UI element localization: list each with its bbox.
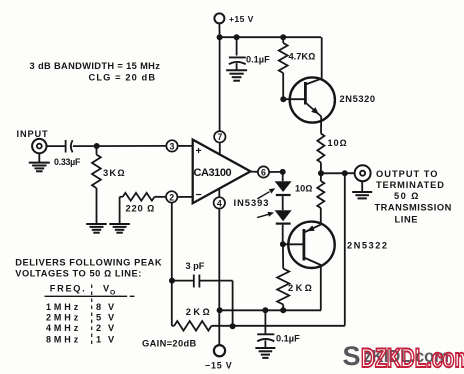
svg-text:2N5320: 2N5320 [340,94,376,104]
capacitor C2 0.33uF [47,140,81,167]
pin 4 [214,197,225,208]
capacitor C4 0.1uF bypass -15V [257,310,300,347]
svg-text:2N5322: 2N5322 [347,241,389,251]
ground below C4 [255,348,275,358]
label 1N5393 [234,188,276,217]
svg-text:INPUT: INPUT [17,129,49,139]
wire Q2 collector [320,265,322,310]
table header [45,284,135,346]
node +15V rail junctions [217,34,287,40]
svg-text:CA3100: CA3100 [194,167,232,179]
svg-text:1 V: 1 V [96,334,116,344]
resistor R7 2K [277,244,314,310]
svg-text:6: 6 [261,167,266,177]
-15V supply terminal [205,345,232,370]
diode D1 1N5393 [275,172,292,210]
svg-text:4MHz: 4MHz [46,323,81,333]
svg-text:FREQ.: FREQ. [50,284,87,294]
output terminal [355,165,371,181]
wire -15V rail [220,309,321,311]
svg-text:3 dB BANDWIDTH = 15 MHz: 3 dB BANDWIDTH = 15 MHz [30,61,161,71]
svg-text:2: 2 [169,192,174,202]
resistor R1 3K [92,146,126,224]
node R7 to -15V rail [280,307,286,313]
pin 7 [214,131,225,142]
svg-text:V: V [103,284,110,294]
svg-text:TRANSMISSION: TRANSMISSION [375,202,452,212]
node Q2 base [280,241,286,247]
wire pin2 column [171,203,173,326]
node output feedback tap [342,170,348,176]
wire pin7 column [219,37,221,131]
node -15V rail left [217,307,223,313]
node C3 to feedback rail [230,323,236,329]
resistor R6 10 ohm [295,173,324,224]
node output junction [318,170,324,176]
ground below R2 [109,224,130,233]
wire pin6 to node [251,171,283,173]
wire pin4 to -15V [218,209,220,345]
svg-text:IN5393: IN5393 [234,198,270,208]
ground below input [29,153,50,171]
pin 3 [166,140,177,151]
svg-text:0.1µF: 0.1µF [246,55,270,65]
svg-text:4.7KΩ: 4.7KΩ [289,52,316,62]
svg-text:VOLTAGES TO 50 Ω LINE:: VOLTAGES TO 50 Ω LINE: [15,269,142,279]
wire pin3 to triangle [178,145,193,147]
svg-text:3 pF: 3 pF [186,261,205,271]
svg-text:0.1µF: 0.1µF [276,334,300,344]
resistor R5 10 ohm [317,134,347,163]
svg-text:220 Ω: 220 Ω [126,203,155,214]
node 3pF tap [169,278,175,284]
svg-text:0.33µF: 0.33µF [54,157,81,167]
svg-text:2 V: 2 V [96,323,116,333]
label output text [375,169,452,224]
svg-text:2MHz: 2MHz [46,313,81,323]
svg-text:5 V: 5 V [96,313,116,323]
resistor R4 4.7K [279,37,315,99]
op-amp U1 CA3100 [193,140,251,204]
svg-text:DELIVERS FOLLOWING PEAK: DELIVERS FOLLOWING PEAK [15,258,162,268]
svg-text:8MHz: 8MHz [46,334,81,344]
svg-text:8 V: 8 V [96,302,116,312]
svg-text:1MHz: 1MHz [46,302,81,312]
resistor R2 220 ohm [120,193,166,224]
wire Q1 collector to rail [321,37,323,78]
svg-text:−: − [196,189,202,201]
svg-text:2KΩ: 2KΩ [186,307,212,317]
watermark gray text [343,341,450,371]
ground below C1 [226,70,247,81]
wire pin7 to triangle [219,143,221,155]
svg-text:−15 V: −15 V [205,361,232,371]
node C4 junction [262,307,268,313]
svg-text:3KΩ: 3KΩ [103,167,126,178]
label input bandwidth note [30,61,161,83]
svg-text:3: 3 [170,141,175,151]
ground below R1 [86,224,107,233]
wire output row [321,172,355,174]
svg-text:TERMINATED: TERMINATED [376,180,445,190]
svg-text:+: + [196,145,202,157]
svg-text:GAIN=20dB: GAIN=20dB [142,339,197,349]
wire pin2 to triangle [177,196,192,198]
input terminal [17,129,49,153]
wire pin4 to triangle [218,189,220,198]
wire R5 to output node [320,163,322,174]
svg-text:DZKDL.com: DZKDL.com [361,343,464,373]
wire feedback column [344,173,346,325]
transistor Q2 2N5322 [283,222,389,268]
capacitor C3 3pF [172,261,233,326]
watermark red text [361,343,464,373]
svg-text:OUTPUT TO: OUTPUT TO [376,169,439,179]
node pin6 diode junction [280,169,286,175]
resistor R3 2K feedback [172,307,345,331]
transistor Q1 2N5320 [283,77,375,122]
svg-text:2KΩ: 2KΩ [288,283,314,293]
svg-text:10Ω: 10Ω [295,184,312,194]
wire +15V rail [220,36,321,38]
svg-text:50 Ω: 50 Ω [394,191,420,201]
capacitor C1 0.1uF bypass +15V [229,37,270,69]
node input divider [94,143,100,149]
svg-text:4: 4 [217,198,222,208]
svg-text:O: O [110,290,115,297]
table rows [46,302,116,344]
svg-text:CLG = 20 dB: CLG = 20 dB [89,73,157,83]
wire input to pin3 [73,145,166,147]
+15V supply terminal [214,13,253,37]
label gain [142,339,197,349]
ground below output terminal [352,181,372,198]
svg-text:+15 V: +15 V [229,14,254,24]
pin 6 [258,166,269,177]
wire Q1 emitter [320,116,322,133]
svg-text:LINE: LINE [395,214,419,224]
svg-text:10Ω: 10Ω [328,138,348,148]
pin 2 [166,191,177,202]
diode D2 1N5393 [275,210,292,244]
svg-text:7: 7 [217,132,222,142]
label table note [15,258,162,279]
node Q1 base [280,96,286,102]
svg-text:S: S [343,341,361,371]
